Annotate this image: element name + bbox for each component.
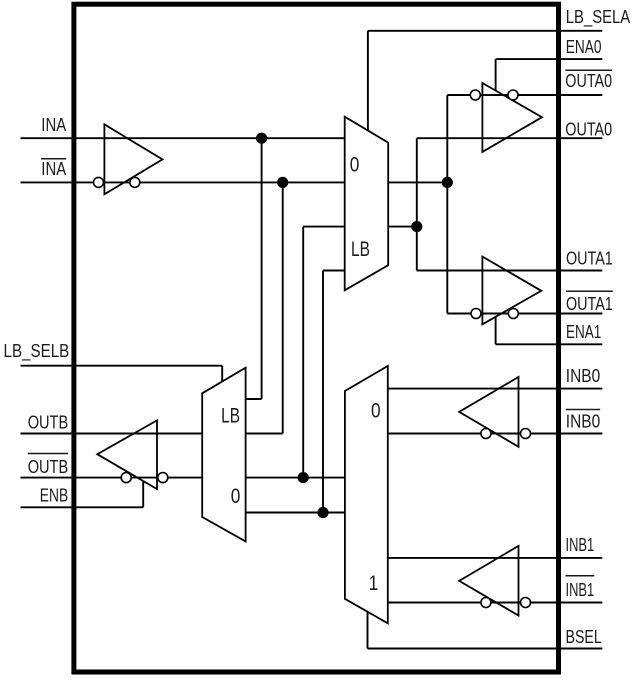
wire LB_SELA horizontal <box>368 30 602 32</box>
wire mux U2 output upper <box>388 181 447 183</box>
svg-text:INB1: INB1 <box>566 579 595 600</box>
svg-text:LB_SELB: LB_SELB <box>4 340 70 362</box>
buffer U6 OUTB driver <box>97 420 157 489</box>
wire mux U2 output lower <box>388 226 417 228</box>
wire ENB vertical into buffer U6 <box>142 481 144 507</box>
wire INA input line <box>21 137 345 139</box>
wire LB_SELB vertical into mux U5 <box>221 366 223 382</box>
chip boundary border <box>74 4 559 672</box>
svg-text:0: 0 <box>371 400 381 423</box>
bubble U9 output inversion <box>481 598 491 608</box>
wire OUTA1 output line <box>417 270 603 272</box>
bubble U9 input inversion <box>521 598 531 608</box>
svg-text:LB_SELA: LB_SELA <box>566 6 631 28</box>
svg-text:OUTB: OUTB <box>28 456 69 477</box>
svg-text:INA: INA <box>41 158 66 179</box>
svg-text:OUTB: OUTB <box>28 412 69 433</box>
wire mux U7 output upper to mux U5 <box>246 477 345 479</box>
buffer U3 OUTA0 driver <box>482 83 542 152</box>
wire BSEL horizontal <box>368 648 603 650</box>
mux U7 B-input select 0/1 <box>345 366 388 623</box>
wire ENA0 horizontal <box>496 58 603 60</box>
wire INB1 input line <box>388 557 603 559</box>
wire INAbar loopback tap vertical <box>282 182 284 433</box>
svg-text:INB1: INB1 <box>566 534 595 555</box>
svg-text:LB: LB <box>221 404 240 427</box>
svg-text:ENA1: ENA1 <box>566 321 601 342</box>
mux U2 A-output select 0/LB <box>345 117 389 291</box>
wire ENA1 vertical into buffer U4 <box>495 317 497 345</box>
bubble U3 input inversion <box>470 90 480 100</box>
svg-text:OUTA0: OUTA0 <box>565 118 612 139</box>
svg-text:ENB: ENB <box>40 484 68 505</box>
mux U5 B-output select LB/0 <box>202 368 245 542</box>
label INB1bar with overline <box>566 576 595 600</box>
wire loopback vertical from node F <box>322 271 324 513</box>
label OUTA1bar with overline <box>566 291 613 314</box>
svg-text:INB0: INB0 <box>566 365 600 386</box>
buffer U4 OUTA1 driver <box>482 257 541 325</box>
label OUTBbar with overline <box>28 454 69 478</box>
svg-text:LB: LB <box>351 238 370 261</box>
node E junction loopback upper <box>298 472 309 483</box>
wire LB_SELA vertical into mux U2 <box>367 31 369 130</box>
bubble U6 input inversion <box>158 473 168 483</box>
wire OUTA0 output line <box>417 137 603 139</box>
bubble U1 input inversion <box>94 177 104 187</box>
svg-text:INA: INA <box>41 114 66 135</box>
buffer U8 INB0 receiver <box>459 377 518 447</box>
wire ENB horizontal <box>21 506 144 508</box>
wire OUTA0bar output line <box>447 94 602 96</box>
bubble U4 output inversion <box>508 309 518 319</box>
wire vertical bus to OUTA0/OUTA1 buffers <box>416 138 418 270</box>
wire mux U7 output lower to mux U5 <box>246 512 345 514</box>
wire loopback into mux U2 LB lower <box>323 270 345 272</box>
wire vertical bus to OUTA0bar/OUTA1bar bubbles <box>446 95 448 314</box>
bubble U8 input inversion <box>521 429 531 439</box>
svg-text:1: 1 <box>369 572 379 595</box>
wire OUTBbar output line <box>21 477 203 479</box>
wire INB0bar input line <box>388 433 603 435</box>
svg-text:ENA0: ENA0 <box>566 36 602 57</box>
label INAbar with overline <box>41 158 67 179</box>
wire INB1bar input line <box>388 602 603 604</box>
bubble U3 output inversion <box>508 90 518 100</box>
svg-text:OUTA1: OUTA1 <box>566 248 613 269</box>
node C junction mux output upper <box>442 177 453 188</box>
wire ENA1 horizontal <box>496 343 603 345</box>
bubble U8 output inversion <box>481 429 491 439</box>
svg-text:0: 0 <box>350 153 360 176</box>
svg-text:OUTA0: OUTA0 <box>565 70 612 91</box>
svg-text:BSEL: BSEL <box>566 626 602 647</box>
node B junction INAbar tap <box>277 177 288 188</box>
node D junction mux output lower <box>411 221 422 232</box>
label INB0bar with overline <box>566 410 600 432</box>
wire mux U5 LB input upper stub <box>246 398 262 400</box>
wire OUTA1bar output line <box>447 313 602 315</box>
wire INA loopback tap vertical <box>261 138 263 399</box>
bubble U1 output inversion <box>130 177 140 187</box>
wire BSEL vertical into mux U7 <box>367 612 369 649</box>
buffer U1 INA receiver <box>104 124 162 194</box>
buffer U9 INB1 receiver <box>459 546 518 616</box>
wire loopback vertical from node E <box>302 227 304 478</box>
wire OUTB output line <box>21 433 203 435</box>
label OUTA0bar with overline <box>565 70 612 91</box>
wire INAbar input line <box>21 181 345 183</box>
bubble U4 input inversion <box>471 309 481 319</box>
node A junction INA tap <box>256 133 267 144</box>
svg-text:OUTA1: OUTA1 <box>566 293 613 314</box>
wire mux U5 LB input lower stub <box>246 433 283 435</box>
node F junction loopback lower <box>317 507 328 518</box>
wire INB0 input line <box>388 388 603 390</box>
wire loopback into mux U2 LB upper <box>303 226 345 228</box>
bubble U6 output inversion <box>121 473 131 483</box>
svg-text:INB0: INB0 <box>566 410 600 431</box>
wire ENA0 vertical into buffer U3 <box>495 59 497 91</box>
wire LB_SELB horizontal <box>21 365 223 367</box>
svg-text:0: 0 <box>231 485 241 508</box>
